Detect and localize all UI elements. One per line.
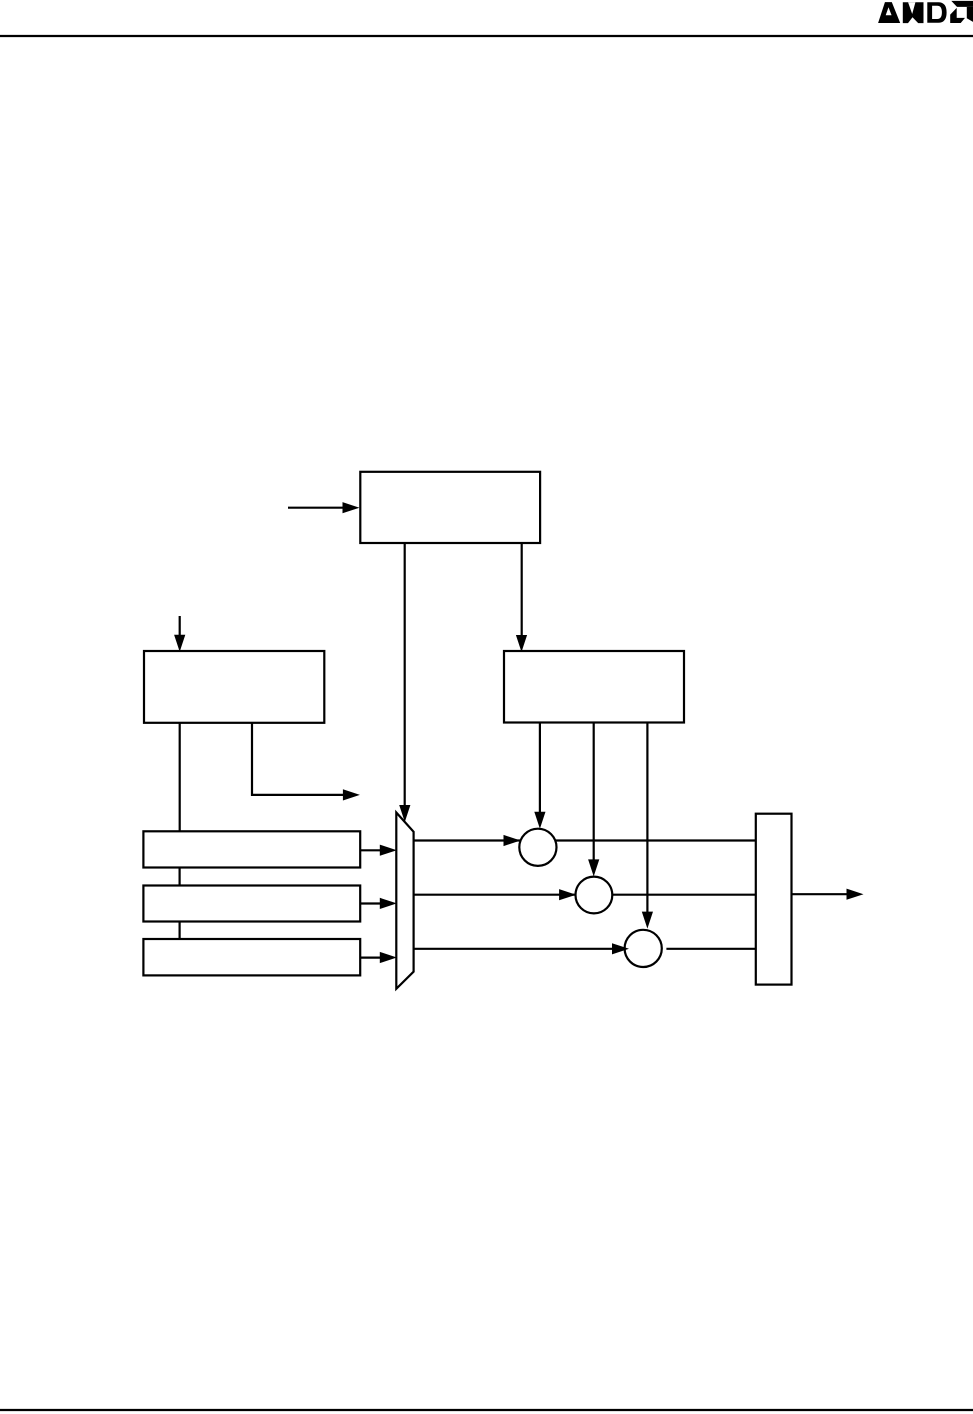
arrowhead: right box line into adder 3 top [642,912,653,929]
adder circle 3 [625,930,662,967]
wire: register1 to mux arrow [360,849,382,851]
block: left box [144,651,324,723]
block: right box [504,651,684,723]
wire: final output arrow [792,893,849,895]
adder circle 2 [576,877,613,914]
wire: input arrow into top box [288,507,344,509]
wire: register3 to mux arrow [360,956,382,958]
wire: register2 to mux arrow [360,902,382,904]
block: output pipeline tall box [756,814,792,985]
block: register 2 [143,886,360,922]
wire: mux output line 3 to adder 3 [414,948,640,950]
AMD arrow symbol lower-left bracket piece [950,8,965,23]
arrowhead: right box line into adder 2 top [588,859,599,876]
wire: mux output line 1 to pipeline box [414,839,756,841]
wire: register2 to register3 connector [179,922,181,940]
wire: top box down to mux (long vertical) [404,543,406,808]
wire: mux output line 2 to pipeline box [414,894,756,896]
wire: L-shaped select arrow from left box [252,723,345,795]
AMD arrow symbol top flag piece [951,1,973,7]
AMD arrow symbol right bar piece [967,7,973,22]
arrowhead: mux line into adder 3 [612,943,629,954]
arrowhead: mux line into adder 2 [559,889,576,900]
AMD logotype letter A [878,2,900,23]
top header rule [0,35,973,37]
wire: left box down to register 1 [179,723,181,832]
adder circle 1 [519,829,556,866]
wire: adder 3 to pipeline box [666,948,755,950]
wire: top box down to right box [521,543,523,637]
block: register 3 [143,939,360,975]
bottom footer rule [0,1409,973,1411]
wire: input arrow into left box [179,616,181,637]
arrowhead: mux line into adder 1 [504,835,521,846]
block: top box [360,472,540,543]
arrowhead: right box line into adder 1 top [534,812,545,829]
AMD logotype letter M [903,2,924,23]
wire: register1 to register2 connector [179,868,181,886]
block: register 1 [143,831,360,867]
wire: right box output 2 down to adder 2 [593,722,595,861]
wire: right box output 3 down to adder 3 [646,722,648,913]
mux trapezoid [396,813,413,989]
AMD logotype letter D [927,2,946,23]
wire: right box output 1 down to adder 1 [539,722,541,814]
arrowhead: top box line into mux [399,805,410,822]
